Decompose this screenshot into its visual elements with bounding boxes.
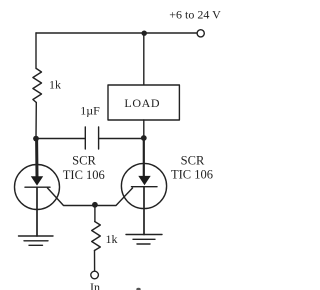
wire R2 to In terminal: [94, 251, 96, 272]
wire SCR1 anode lead: [35, 139, 38, 177]
svg-text:LOAD: LOAD: [124, 96, 160, 110]
node C gate junction: [92, 202, 98, 208]
SCR Q2 anode triangle: [138, 176, 150, 185]
SCR Q1 anode triangle: [31, 176, 43, 185]
SCR Q2 cathode bar: [132, 186, 158, 188]
svg-text:1k: 1k: [106, 232, 118, 246]
resistor R1 1k: [33, 69, 42, 103]
ground right: [126, 235, 162, 245]
resistor R2 1k: [92, 222, 101, 251]
svg-text:SCR: SCR: [181, 154, 205, 168]
wire node C to R2: [94, 205, 96, 222]
wire SCR2 cathode to ground: [143, 187, 145, 235]
svg-text:SCR: SCR: [72, 154, 96, 168]
capacitor C1 1uF plates: [85, 127, 98, 149]
wire SCR2 anode lead: [143, 138, 145, 176]
terminal In: [91, 271, 99, 279]
svg-text:1µF: 1µF: [80, 104, 100, 118]
wire capacitor right lead: [99, 138, 144, 140]
svg-text:1k: 1k: [49, 78, 61, 92]
ground left: [19, 236, 54, 245]
wire left vertical to R1: [35, 33, 37, 69]
SCR Q2 TIC 106 body: [121, 163, 166, 208]
wire top supply bus: [36, 32, 197, 34]
node B: [141, 135, 147, 141]
wire LOAD top lead: [143, 33, 145, 85]
svg-text:TIC 106: TIC 106: [63, 168, 105, 182]
svg-text:+6 to 24 V: +6 to 24 V: [169, 8, 221, 22]
node A: [33, 136, 39, 142]
terminal +6 to 24 V: [197, 30, 204, 37]
SCR Q1 TIC 106 body: [15, 165, 60, 210]
wire capacitor left lead: [36, 138, 85, 140]
wire R1 to node A: [35, 103, 37, 139]
SCR Q1 cathode bar: [25, 186, 50, 188]
wire gate bus Q1 to Q2: [48, 188, 133, 206]
load box: [108, 85, 179, 120]
svg-text:TIC 106: TIC 106: [171, 168, 213, 182]
svg-text:In: In: [90, 280, 100, 290]
node top junction: [142, 31, 147, 36]
wire LOAD bottom lead: [143, 120, 145, 138]
artifact mark bottom: [136, 288, 140, 290]
wire SCR1 cathode to ground: [36, 187, 38, 236]
